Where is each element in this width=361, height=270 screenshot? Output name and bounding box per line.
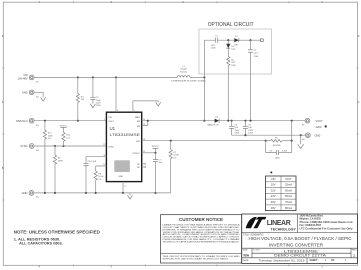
svg-text:CDRH8D43RT/LD5NP-101MC: CDRH8D43RT/LD5NP-101MC: [171, 81, 207, 83]
svg-text:SYNC: SYNC: [108, 146, 114, 148]
svg-text:INTVCC: INTVCC: [152, 146, 160, 148]
node rail R6: [54, 192, 56, 194]
probe square VOUT: [325, 125, 327, 127]
node gnd rail arrow: [300, 134, 302, 136]
svg-text:DATE:: DATE:: [243, 259, 250, 262]
svg-text:ON/UVLO: ON/UVLO: [16, 119, 28, 123]
power flag INTVCC U1: [152, 146, 160, 153]
square terminal optional output: [261, 39, 264, 42]
op-amp U1 LT8331EMSE box: [106, 112, 141, 181]
svg-text:OPT: OPT: [254, 53, 259, 55]
title block: [242, 214, 358, 263]
svg-text:80mA: 80mA: [285, 206, 292, 210]
wire E2 to ground: [34, 92, 43, 97]
svg-text:Tuesday, September 01, 2015: Tuesday, September 01, 2015: [259, 258, 306, 262]
svg-text:36V: 36V: [271, 200, 276, 204]
svg-text:OPT: OPT: [231, 49, 236, 51]
svg-text:1%: 1%: [173, 157, 176, 159]
node rail pin17: [122, 192, 124, 194]
svg-text:REV.: REV.: [352, 250, 357, 252]
svg-text:11: 11: [104, 155, 106, 157]
svg-text:ALL CAPACITORS 0603.: ALL CAPACITORS 0603.: [19, 241, 63, 245]
node FBX R7: [170, 140, 172, 142]
wire VIN rail: [34, 76, 177, 78]
svg-text:OPT: OPT: [234, 45, 239, 47]
svg-text:55mA: 55mA: [285, 194, 292, 198]
svg-text:70mA: 70mA: [285, 200, 292, 204]
svg-text:SYNC: SYNC: [20, 144, 27, 148]
terminal E2 GND: [29, 90, 39, 99]
svg-text:UVLO: UVLO: [108, 121, 114, 123]
capacitor C8: [266, 141, 292, 160]
svg-text:1M 0805: 1M 0805: [272, 145, 281, 147]
svg-text:IC NO.: IC NO.: [254, 250, 261, 252]
date sheet row: [243, 258, 347, 262]
resistor R10: [62, 132, 71, 146]
terminal E5 VOUT: [302, 118, 310, 126]
customer notice box: [161, 215, 242, 263]
svg-text:VIN: VIN: [271, 177, 276, 181]
capacitor C4: [229, 121, 240, 136]
pin 16 FBX wire: [142, 139, 266, 141]
node rail C7: [154, 192, 156, 194]
svg-text:SUPPLIED FOR USE WITH LINEAR T: SUPPLIED FOR USE WITH LINEAR TECHNOLOGY …: [163, 258, 230, 261]
pin 15 INTVCC wire: [142, 151, 156, 153]
svg-text:D: D: [2, 35, 4, 38]
optional circuit box: [199, 22, 272, 74]
svg-text:OF: OF: [331, 259, 335, 262]
svg-text:LT8331EMSE: LT8331EMSE: [110, 132, 141, 137]
svg-text:14: 14: [143, 124, 145, 126]
svg-text:SHEET: SHEET: [310, 259, 319, 262]
svg-text:VOUT: VOUT: [316, 119, 324, 123]
ground E2 arrow: [41, 97, 46, 101]
node SW L1 column: [203, 120, 205, 122]
node divider top R5: [291, 140, 293, 142]
svg-text:VIN: VIN: [108, 117, 112, 119]
wire C1 to D1: [218, 39, 235, 41]
svg-text:TECHNOLOGY APPLICATIONS ENGINE: TECHNOLOGY APPLICATIONS ENGINEERING FOR …: [163, 240, 241, 243]
node rail R12: [44, 192, 46, 194]
svg-text:49R9: 49R9: [58, 160, 64, 162]
node UVLO junction R12: [44, 120, 46, 122]
node output C4: [231, 120, 233, 122]
svg-text:1M: 1M: [81, 99, 84, 101]
svg-text:2: 2: [353, 254, 355, 258]
table VIN IOUT: [266, 176, 297, 211]
svg-text:24V: 24V: [271, 194, 276, 198]
NC stubs: [142, 163, 146, 168]
node rail C6: [85, 192, 87, 194]
svg-text:GND: GND: [118, 176, 123, 178]
resistor R2: [227, 57, 237, 121]
pin 10 stub to R8: [96, 164, 107, 171]
svg-text:100µH: 100µH: [180, 69, 187, 71]
svg-text:10: 10: [103, 164, 105, 166]
svg-text:30mA: 30mA: [285, 189, 292, 193]
svg-text:1%: 1%: [98, 179, 101, 181]
svg-text:FBX: FBX: [136, 141, 141, 143]
capacitor C3: [90, 77, 101, 107]
pin 3 VIN wire: [116, 77, 118, 112]
svg-text:12: 12: [103, 144, 105, 146]
node VIN junction C3: [92, 76, 94, 78]
net label VOUT 120V: [316, 119, 324, 129]
node gnd rail C5: [244, 134, 246, 136]
pin 17 GND wire: [123, 182, 126, 193]
svg-text:1: 1: [104, 119, 105, 121]
node SYNC junction R6: [54, 145, 56, 147]
svg-text:10V: 10V: [271, 183, 276, 187]
svg-text:INTVCC: INTVCC: [60, 125, 68, 127]
svg-text:C: C: [358, 101, 360, 104]
svg-text:7: 7: [134, 110, 135, 112]
wire SW node to L1: [190, 76, 204, 78]
node output divider: [291, 120, 293, 122]
U1 exposed pad: [115, 161, 130, 178]
marker square above table: [271, 172, 273, 174]
svg-text:17: 17: [124, 186, 126, 188]
title text: [243, 234, 352, 248]
svg-text:OPT: OPT: [231, 62, 236, 64]
resistor R8: [94, 171, 104, 193]
size rev cells: [243, 250, 358, 258]
svg-text:1%: 1%: [48, 138, 51, 140]
resistor R12: [43, 121, 53, 193]
node rail R8: [95, 192, 97, 194]
node SYNC junction R10: [62, 145, 64, 147]
pin 13 SW wire: [142, 119, 215, 121]
svg-text:250V: 250V: [234, 130, 239, 132]
svg-text:U1: U1: [110, 126, 116, 131]
node UVLO junction R3: [77, 120, 79, 122]
svg-text:Sumida: Sumida: [180, 71, 188, 73]
svg-text:SW: SW: [137, 126, 140, 128]
svg-text:10V-48V: 10V-48V: [18, 77, 28, 81]
svg-text:GND: GND: [315, 133, 321, 137]
pin 7 BIAS wire: [133, 101, 158, 112]
net label VIN 10V-48V: [18, 73, 28, 80]
diode D1: [234, 36, 250, 47]
terminal E3 ON/UVLO: [29, 118, 39, 127]
svg-text:HIGH VOLTAGE, 0.5A BOOST / FLY: HIGH VOLTAGE, 0.5A BOOST / FLYBACK / SEP…: [249, 236, 352, 241]
svg-text:223K: 223K: [48, 135, 53, 137]
svg-text:GND: GND: [22, 90, 28, 94]
terminal E5 GND bottom: [29, 191, 40, 199]
svg-text:16: 16: [143, 139, 145, 141]
node D2 top: [227, 39, 229, 41]
terminal E1 VIN: [29, 75, 39, 84]
svg-text:48V: 48V: [271, 206, 276, 210]
svg-text:VIN: VIN: [23, 73, 27, 77]
capacitor C5: [243, 121, 254, 136]
svg-text:BAV21W-7-F: BAV21W-7-F: [208, 124, 220, 127]
resistor R3: [76, 77, 84, 120]
svg-text:C6 4.7µF: C6 4.7µF: [88, 161, 97, 163]
resistor R5: [266, 138, 292, 147]
svg-text:25mA: 25mA: [285, 183, 292, 187]
node VIN junction U1 pin3: [115, 76, 117, 78]
node VIN junction R3: [77, 76, 79, 78]
logo Linear Technology: [246, 217, 297, 232]
capacitor C7: [153, 153, 163, 193]
wire SYNC: [34, 145, 106, 147]
wire output: [219, 120, 305, 122]
ground rail arrow: [128, 193, 133, 199]
diode D2: [226, 40, 236, 56]
svg-text:C: C: [2, 101, 4, 104]
diode D3: [208, 117, 220, 127]
svg-text:12V: 12V: [271, 189, 276, 193]
svg-text:LTC Confidential-For Customer: LTC Confidential-For Customer Use Only: [300, 228, 354, 231]
svg-text:120V: 120V: [316, 125, 322, 129]
node divider left R5: [265, 140, 267, 142]
svg-text:INVERTING CONVERTER: INVERTING CONVERTER: [269, 242, 323, 247]
capacitor C1: [211, 36, 219, 50]
wire D1 to square terminal: [251, 39, 261, 41]
svg-text:CUSTOMER NOTICE: CUSTOMER NOTICE: [179, 217, 223, 222]
wire divider vertical: [291, 121, 293, 153]
resistor R6: [53, 146, 63, 193]
wire optional left column: [204, 40, 215, 77]
svg-text:D: D: [358, 35, 360, 38]
svg-text:BIAS: BIAS: [135, 116, 140, 119]
wire output ground rail: [232, 134, 306, 136]
note text: [14, 229, 100, 245]
capacitor C2: [248, 40, 259, 121]
node L1 SW junction: [203, 76, 205, 78]
wire GND rail bottom: [34, 192, 171, 194]
svg-text:NOTE: UNLESS OTHERWISE SPECIFI: NOTE: UNLESS OTHERWISE SPECIFIED: [14, 229, 100, 234]
inductor L1: [171, 66, 207, 83]
svg-text:LINEAR: LINEAR: [267, 220, 291, 227]
wire UVLO: [34, 120, 106, 122]
node output optional R2: [227, 120, 229, 122]
svg-text:OPT: OPT: [211, 45, 216, 47]
svg-text:SW: SW: [137, 121, 140, 123]
resistor R7: [169, 141, 179, 193]
address block: [300, 215, 354, 231]
svg-text:SIZE: SIZE: [243, 250, 248, 252]
svg-text:13: 13: [143, 119, 145, 121]
node SW pins join: [147, 120, 149, 122]
svg-text:250V: 250V: [248, 130, 253, 132]
ground output arrow: [298, 135, 304, 148]
svg-text:DEMO CIRCUIT 2277A: DEMO CIRCUIT 2277A: [274, 254, 327, 258]
wire SW column to L1: [203, 77, 205, 120]
node INTVCC junction: [154, 152, 156, 154]
svg-text:3: 3: [117, 110, 118, 112]
pin 14 SW stub: [142, 121, 148, 126]
svg-text:IOUT: IOUT: [285, 177, 292, 181]
svg-text:15: 15: [143, 151, 145, 153]
svg-text:TECHNOLOGY: TECHNOLOGY: [271, 228, 297, 232]
terminal E4 SYNC: [29, 144, 39, 153]
svg-text:INTVCC: INTVCC: [133, 153, 141, 155]
svg-text:N/A: N/A: [244, 254, 250, 258]
svg-text:13.3K: 13.3K: [173, 155, 179, 157]
svg-text:OPTIONAL CIRCUIT: OPTIONAL CIRCUIT: [208, 22, 254, 28]
power flag INTVCC R10: [60, 125, 68, 132]
node C2 top: [249, 39, 251, 41]
capacitor C6: [84, 161, 97, 193]
ground BIAS arrow: [156, 102, 161, 106]
node output optional C2: [249, 120, 251, 122]
svg-text:GND: GND: [22, 191, 28, 195]
svg-text:4.7pF: 4.7pF: [282, 150, 288, 152]
ground C3 arrow: [90, 104, 95, 108]
pin 11 stub to C6: [86, 155, 106, 164]
terminal E6 GND: [302, 133, 310, 141]
node output C5: [244, 120, 246, 122]
